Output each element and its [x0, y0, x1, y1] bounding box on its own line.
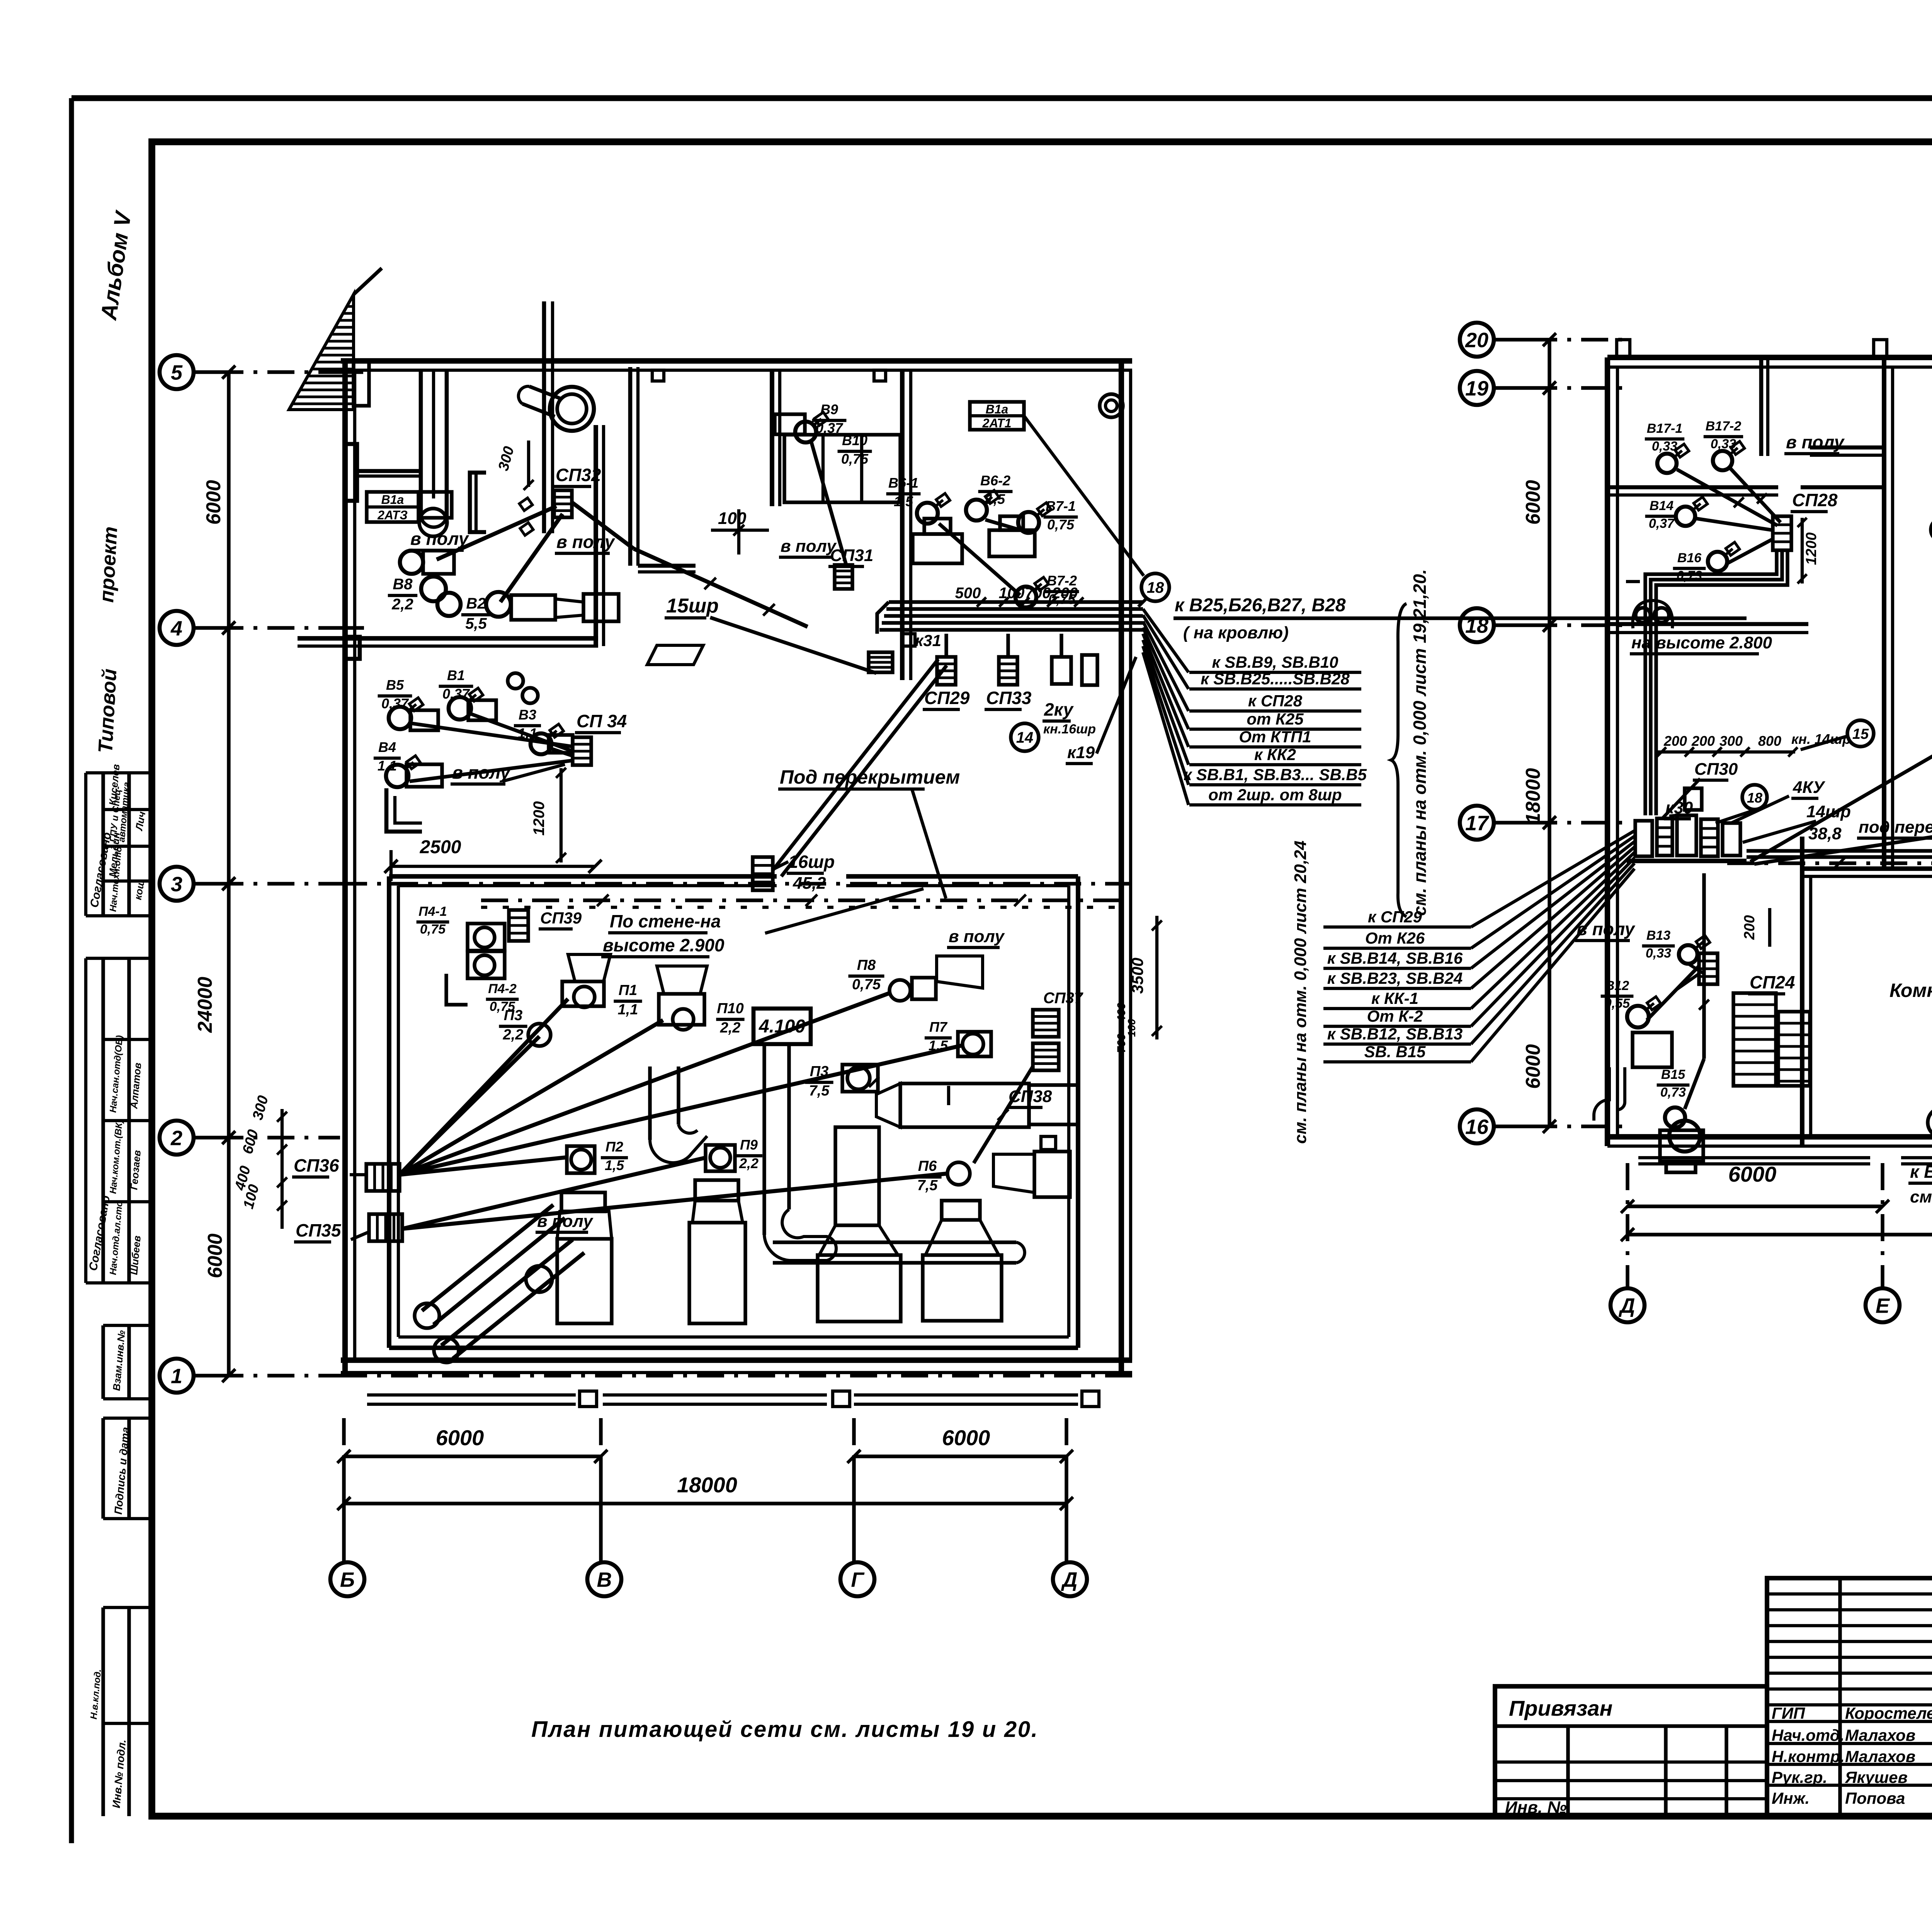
- svg-text:4: 4: [170, 617, 182, 640]
- cables to SP34: [412, 723, 573, 747]
- title block left box Privyazan: [1495, 1686, 1767, 1816]
- svg-text:ГИП: ГИП: [1772, 1704, 1805, 1722]
- svg-text:6000: 6000: [202, 480, 225, 525]
- vents V6-1 V6-2: [917, 503, 938, 524]
- svg-text:П3: П3: [504, 1007, 522, 1024]
- svg-text:От КТП1: От КТП1: [1239, 728, 1311, 746]
- svg-text:В12: В12: [1605, 978, 1629, 993]
- svg-text:1: 1: [171, 1364, 182, 1388]
- svg-text:Д: Д: [1061, 1568, 1078, 1591]
- svg-text:к SВ.В25.....SВ.В28: к SВ.В25.....SВ.В28: [1201, 670, 1350, 688]
- cables V13 V12 SP24: [1688, 964, 1704, 974]
- svg-text:СП30: СП30: [1694, 760, 1738, 779]
- title block: [1767, 1578, 1932, 1816]
- svg-text:высоте 2.900: высоте 2.900: [603, 935, 724, 955]
- hatched floor connector: [869, 652, 893, 672]
- svg-text:15шр: 15шр: [666, 595, 719, 617]
- svg-text:2,2: 2,2: [391, 596, 413, 613]
- svg-text:В1а: В1а: [986, 402, 1009, 416]
- svg-text:200: 200: [1663, 733, 1687, 749]
- right plan outer walls: [1607, 355, 1932, 360]
- vents V7-1 V7-2: [1018, 512, 1039, 533]
- dims 200 200 300 800: [1656, 750, 1795, 754]
- long horizontal silencer: [876, 1084, 900, 1127]
- svg-text:500: 500: [955, 585, 981, 602]
- svg-text:700: 700: [1115, 1034, 1128, 1053]
- svg-text:к КК2: к КК2: [1254, 745, 1296, 764]
- svg-text:6000: 6000: [436, 1425, 484, 1450]
- svg-text:П4-1: П4-1: [418, 904, 447, 919]
- svg-text:0,37: 0,37: [1649, 516, 1675, 531]
- svg-text:В17-2: В17-2: [1706, 419, 1742, 434]
- svg-text:В15: В15: [1661, 1067, 1685, 1082]
- svg-text:В1а: В1а: [381, 493, 404, 507]
- box V1a 2AT3: [367, 492, 418, 522]
- SP35: [369, 1214, 402, 1241]
- SP36: [366, 1164, 400, 1191]
- svg-text:19: 19: [1465, 377, 1488, 400]
- svg-text:0,75: 0,75: [420, 922, 446, 937]
- P3 7.5 unit: [842, 1065, 878, 1092]
- svg-text:Б: Б: [340, 1568, 355, 1591]
- SP32 connector: [554, 490, 572, 517]
- svg-text:2АТЗ: 2АТЗ: [377, 508, 408, 522]
- axis 3 line through plan: [340, 882, 1132, 885]
- SP28: [1773, 516, 1791, 550]
- P10 unit: [659, 994, 704, 1025]
- duct bottle below P3-7.5: [835, 1127, 879, 1225]
- bottle funnel below P6: [942, 1201, 980, 1220]
- tall narrow shaft: [542, 301, 546, 533]
- svg-text:20: 20: [1465, 328, 1488, 352]
- svg-text:6000: 6000: [204, 1233, 226, 1278]
- svg-text:в полу: в полу: [949, 927, 1005, 946]
- room1 bottom walls: [1810, 446, 1884, 450]
- svg-text:Малахов: Малахов: [1845, 1747, 1915, 1766]
- svg-text:к SВ.В14, SВ.В16: к SВ.В14, SВ.В16: [1327, 949, 1463, 967]
- svg-text:П7: П7: [929, 1019, 948, 1035]
- svg-text:П10: П10: [717, 1000, 744, 1017]
- SP29 SP33 2ku boxes: [937, 657, 956, 685]
- P8 unit: [889, 980, 910, 1001]
- svg-text:П9: П9: [740, 1137, 758, 1153]
- right plan row axes: [1460, 323, 1494, 357]
- vents V17-1 V17-2: [1657, 454, 1677, 473]
- svg-text:0,55: 0,55: [1604, 996, 1630, 1011]
- svg-text:В9: В9: [820, 401, 838, 417]
- box V1a 2AT1: [970, 402, 1024, 430]
- svg-text:1,5: 1,5: [894, 493, 913, 509]
- cable fan from SP35: [402, 1158, 706, 1229]
- svg-text:СП36: СП36: [294, 1155, 339, 1175]
- svg-text:В7-1: В7-1: [1046, 498, 1076, 514]
- vent V8: [400, 551, 423, 574]
- svg-text:к SВ.В23, SВ.В24: к SВ.В23, SВ.В24: [1327, 969, 1463, 987]
- svg-text:200: 200: [1742, 915, 1758, 940]
- fan from plan edge to stack1: [1143, 609, 1189, 672]
- svg-text:кн.16шр: кн.16шр: [1043, 722, 1096, 737]
- svg-text:0,73: 0,73: [1660, 1085, 1686, 1100]
- sheet outer border: [69, 98, 74, 1843]
- svg-text:В14: В14: [1650, 498, 1673, 513]
- SP34: [573, 737, 591, 765]
- svg-text:18000: 18000: [1522, 768, 1544, 824]
- svg-text:2ку: 2ку: [1044, 699, 1074, 720]
- channel bracket: [470, 473, 486, 532]
- svg-text:7,5: 7,5: [917, 1177, 938, 1194]
- svg-text:200: 200: [1691, 733, 1715, 749]
- svg-text:Привязан: Привязан: [1509, 1696, 1612, 1720]
- svg-text:Инв. №: Инв. №: [1505, 1798, 1567, 1817]
- svg-text:на высоте 2.800: на высоте 2.800: [1631, 633, 1772, 652]
- axis 5 line through stair: [340, 370, 363, 374]
- bottom dim lines 6000/18000: [344, 1454, 601, 1458]
- svg-text:0,37: 0,37: [442, 686, 470, 702]
- 4.100 box left plan: [753, 1009, 811, 1044]
- svg-text:6000: 6000: [1522, 480, 1544, 525]
- svg-text:Рук.гр.: Рук.гр.: [1772, 1768, 1827, 1786]
- duct down from 4.100: [762, 1044, 766, 1235]
- svg-text:в полу: в полу: [781, 537, 837, 556]
- svg-text:3500: 3500: [1128, 958, 1146, 993]
- trunk right from cluster to SP25/27: [1747, 855, 1932, 859]
- stamp table block 2 (Soglasovano): [101, 958, 105, 1283]
- top wall pilaster tabs: [652, 370, 664, 381]
- svg-text:Малахов: Малахов: [1845, 1726, 1915, 1744]
- window block: [784, 435, 900, 502]
- svg-text:18000: 18000: [677, 1473, 737, 1497]
- svg-text:2: 2: [170, 1126, 182, 1150]
- svg-text:0,37: 0,37: [381, 696, 409, 711]
- P3 vent: [528, 1024, 551, 1046]
- room wall vertical: [594, 425, 598, 646]
- svg-text:Н.контр.: Н.контр.: [1772, 1747, 1845, 1766]
- axis 1 line through plan: [340, 1374, 1132, 1377]
- svg-text:к31: к31: [915, 631, 941, 650]
- wall at axis G: [900, 370, 905, 680]
- svg-text:100: 100: [999, 585, 1025, 602]
- svg-text:0,37: 0,37: [816, 420, 844, 436]
- svg-text:П2: П2: [605, 1139, 623, 1155]
- 16shr connector and label: [773, 659, 938, 870]
- svg-text:в полу: в полу: [1786, 432, 1845, 452]
- svg-text:Попова: Попова: [1845, 1789, 1905, 1807]
- dash-dot run right plan: [1727, 861, 1932, 865]
- bottle funnel below P2: [561, 1192, 605, 1211]
- stamp rows: inv no podl: [101, 1607, 105, 1816]
- P4-2 unit: [468, 951, 505, 978]
- stamp table block 1 (Soglasovano): [101, 773, 105, 916]
- svg-text:6000: 6000: [942, 1425, 990, 1450]
- circle 18 left plan: [1141, 573, 1169, 601]
- room1 vertical wall: [1759, 360, 1764, 456]
- svg-text:Под перекрытием: Под перекрытием: [780, 766, 960, 788]
- svg-text:7,5: 7,5: [809, 1083, 830, 1099]
- svg-text:От К26: От К26: [1365, 929, 1425, 947]
- svg-text:5,5: 5,5: [465, 615, 487, 632]
- svg-text:2,2: 2,2: [503, 1027, 524, 1043]
- svg-text:к СП29: к СП29: [1368, 908, 1422, 926]
- svg-text:2500: 2500: [420, 837, 461, 857]
- circle 14 and kn16shr k19: [1011, 723, 1039, 751]
- svg-text:Комната мастеров: Комната мастеров: [1889, 980, 1932, 1001]
- room wall horizontal: [298, 636, 598, 641]
- svg-text:Г: Г: [851, 1568, 865, 1591]
- svg-text:в полу: в полу: [556, 532, 616, 552]
- svg-text:от К25: от К25: [1247, 710, 1304, 728]
- svg-text:к В25,Б26,В27, В28: к В25,Б26,В27, В28: [1175, 595, 1346, 616]
- svg-text:2,2: 2,2: [720, 1020, 741, 1036]
- upper middle wall: [770, 370, 774, 506]
- svg-text:см. планы на отм. 0,000 лист 1: см. планы на отм. 0,000 лист 19,21,20.: [1410, 569, 1430, 916]
- svg-text:Инж.: Инж.: [1772, 1789, 1810, 1807]
- svg-text:П8: П8: [857, 957, 876, 973]
- svg-text:к SВ.В1, SВ.В3... SВ.В5: к SВ.В1, SВ.В3... SВ.В5: [1184, 765, 1367, 784]
- svg-text:СП28: СП28: [1792, 490, 1838, 510]
- svg-text:800: 800: [1758, 733, 1781, 749]
- svg-text:В4: В4: [378, 739, 396, 755]
- P1 unit: [562, 981, 604, 1006]
- svg-text:45,2: 45,2: [793, 874, 826, 893]
- svg-text:к В23,В24 ( на кровлю): к В23,В24 ( на кровлю): [1910, 1162, 1932, 1182]
- svg-text:в полу: в полу: [1577, 919, 1636, 939]
- stair hatch top-left outside: [289, 294, 354, 410]
- svg-text:План питающей сети см. лис: План питающей сети см. листы 19 и 20.: [531, 1717, 1037, 1742]
- P2 unit: [567, 1146, 595, 1173]
- svg-text:СП29: СП29: [924, 688, 970, 708]
- svg-text:1200: 1200: [531, 801, 548, 836]
- svg-text:в полу: в полу: [452, 762, 511, 782]
- left plan outer walls: [341, 358, 1132, 364]
- svg-text:СП31: СП31: [830, 546, 873, 565]
- svg-text:14: 14: [1016, 729, 1034, 746]
- svg-text:Коростелев: Коростелев: [1845, 1704, 1932, 1722]
- svg-text:По стене-на: По стене-на: [610, 911, 721, 931]
- svg-text:см. планы на отм. 0,000 лист 2: см. планы на отм. 0,000 лист 20,24: [1291, 840, 1310, 1144]
- stairwell: [1733, 993, 1776, 1086]
- big vertical duct: [419, 370, 423, 516]
- svg-text:17: 17: [1465, 811, 1490, 835]
- svg-text:SВ. В15: SВ. В15: [1364, 1043, 1426, 1061]
- room2 bottom wall: [1607, 622, 1808, 626]
- svg-text:16шр: 16шр: [788, 852, 835, 872]
- svg-text:от 2шр. от 8шр: от 2шр. от 8шр: [1208, 786, 1342, 804]
- right plan column axes bottom: [1611, 1288, 1645, 1322]
- svg-text:см. план на отм. 0,000 лист 24: см. план на отм. 0,000 лист 24: [1910, 1187, 1932, 1206]
- svg-text:В1: В1: [447, 667, 465, 683]
- svg-text:От К-2: От К-2: [1367, 1007, 1423, 1025]
- cables to SP28: [1677, 469, 1777, 526]
- SP37 SP38 boxes: [1033, 1010, 1059, 1037]
- small room top wall: [357, 469, 419, 473]
- svg-text:Д: Д: [1619, 1294, 1635, 1317]
- bottle funnel below P9: [695, 1180, 738, 1201]
- svg-text:0,33: 0,33: [1711, 437, 1736, 451]
- svg-text:15: 15: [1852, 726, 1869, 742]
- svg-text:В17-1: В17-1: [1647, 421, 1683, 436]
- svg-text:к СП28: к СП28: [1248, 692, 1303, 710]
- svg-text:0,33: 0,33: [1646, 946, 1671, 961]
- svg-text:Типовой: Типовой: [94, 668, 121, 754]
- svg-text:( на кровлю): ( на кровлю): [1183, 623, 1289, 642]
- svg-text:П1: П1: [619, 982, 637, 998]
- svg-text:П4-2: П4-2: [488, 981, 517, 996]
- svg-text:2АТ1: 2АТ1: [982, 416, 1011, 430]
- svg-text:0,75: 0,75: [841, 451, 869, 467]
- svg-text:к КК-1: к КК-1: [1371, 989, 1418, 1007]
- interior main vertical wall: [1882, 357, 1886, 869]
- cable fan from SP36: [400, 999, 568, 1175]
- svg-text:18: 18: [1147, 579, 1164, 596]
- rounded elbow duct: [648, 1067, 651, 1140]
- svg-text:Якушев: Якушев: [1845, 1768, 1908, 1786]
- svg-text:В6-2: В6-2: [980, 473, 1010, 488]
- svg-text:18: 18: [1747, 790, 1762, 806]
- P7 unit: [958, 1032, 991, 1056]
- bottom outer strip: [367, 1393, 576, 1397]
- trunk from SP28 down-left: [1645, 550, 1777, 815]
- svg-text:6000: 6000: [1522, 1044, 1544, 1089]
- svg-text:проект: проект: [95, 526, 122, 603]
- P4-1 unit: [468, 924, 505, 951]
- svg-text:1,5: 1,5: [986, 491, 1005, 507]
- svg-text:под перекрытием: под перекрытием: [1859, 818, 1932, 837]
- right plan bottom strip: [1638, 1156, 1870, 1159]
- svg-text:к19: к19: [1067, 743, 1095, 762]
- svg-text:В8: В8: [393, 576, 413, 593]
- svg-text:В13: В13: [1646, 928, 1670, 943]
- svg-text:СП39: СП39: [540, 909, 582, 927]
- axis 4 stub into plan: [340, 626, 364, 629]
- P6 unit: [947, 1162, 970, 1185]
- svg-text:0,33: 0,33: [1652, 439, 1677, 454]
- SP39: [509, 910, 528, 941]
- second room wall vertical: [628, 367, 633, 566]
- svg-text:0,75: 0,75: [1047, 517, 1075, 532]
- svg-text:5: 5: [171, 361, 183, 384]
- cluster leaders: [1662, 779, 1700, 819]
- equipment cluster: [1635, 821, 1652, 856]
- stack1 brace: [1391, 604, 1406, 917]
- vent V9 and label: [795, 422, 816, 442]
- SP24: [1699, 953, 1718, 984]
- svg-text:В6-1: В6-1: [888, 475, 918, 491]
- svg-text:В5: В5: [386, 677, 404, 693]
- svg-text:в полу: в полу: [537, 1212, 594, 1231]
- right bottom dim lines: [1628, 1204, 1883, 1208]
- left plan column axes bottom: [330, 1562, 364, 1596]
- right plan top pilasters: [1617, 340, 1630, 357]
- svg-text:Е: Е: [1876, 1294, 1890, 1317]
- svg-text:П6: П6: [918, 1158, 937, 1174]
- left plan vertical dim line: [227, 372, 230, 1376]
- ring outlet top right room: [1100, 394, 1123, 417]
- svg-text:В: В: [597, 1568, 612, 1591]
- svg-text:СП37: СП37: [1043, 990, 1083, 1007]
- lower hall double walls: [389, 874, 777, 879]
- svg-text:в полу: в полу: [410, 529, 469, 549]
- left plan row axes: [160, 355, 194, 389]
- svg-text:СП 34: СП 34: [577, 711, 627, 731]
- svg-text:В3: В3: [519, 707, 536, 723]
- lower-left room vents V5 V1 V3 V4: [389, 707, 411, 729]
- right plan vertical dim line: [1548, 340, 1551, 1126]
- svg-text:16: 16: [1465, 1115, 1489, 1138]
- svg-text:СП24: СП24: [1750, 972, 1795, 992]
- svg-text:1,1: 1,1: [378, 758, 397, 774]
- svg-text:0,75: 0,75: [852, 976, 881, 993]
- dash-dot run under ceiling: [481, 898, 1120, 902]
- svg-text:Нач.отд.: Нач.отд.: [1772, 1726, 1844, 1744]
- cables from SP32: [437, 506, 556, 560]
- long floor pipe: [773, 1240, 1016, 1244]
- svg-text:В2: В2: [466, 595, 486, 612]
- svg-text:3: 3: [171, 873, 182, 896]
- svg-text:4КУ: 4КУ: [1793, 778, 1826, 797]
- svg-text:6000: 6000: [1728, 1162, 1777, 1186]
- tilted cylinder pipe: [550, 387, 594, 431]
- small parallelogram: [647, 645, 703, 665]
- svg-text:300: 300: [1719, 733, 1743, 749]
- svg-text:В10: В10: [842, 432, 867, 448]
- two circled outlets komnata: [1928, 1108, 1932, 1137]
- P9 unit: [706, 1145, 735, 1171]
- stamp rows: podpis i data: [101, 1418, 105, 1519]
- svg-text:24000: 24000: [194, 977, 216, 1033]
- vent V2: [486, 592, 511, 617]
- svg-text:В16: В16: [1677, 551, 1702, 565]
- svg-text:СП32: СП32: [556, 465, 601, 485]
- svg-text:к SВ.В12, SВ.В13: к SВ.В12, SВ.В13: [1327, 1025, 1463, 1043]
- svg-text:2,2: 2,2: [739, 1155, 759, 1171]
- ring outlets: [1931, 518, 1932, 541]
- diagonal floor ducts: [422, 1205, 553, 1311]
- vents V14 V16: [1676, 507, 1695, 526]
- svg-text:к SВ.В9, SВ.В10: к SВ.В9, SВ.В10: [1212, 653, 1338, 671]
- komnata masterov walls: [1802, 866, 1932, 871]
- na vysote 2.800: [1636, 608, 1650, 623]
- svg-text:1200: 1200: [1803, 532, 1820, 565]
- stamp rows: vzam inv: [101, 1325, 105, 1399]
- svg-text:СП33: СП33: [986, 688, 1032, 708]
- svg-text:1,1: 1,1: [618, 1002, 638, 1018]
- svg-text:1,5: 1,5: [605, 1157, 624, 1173]
- svg-text:СП35: СП35: [296, 1220, 342, 1240]
- trunk bundle to right edge: [889, 600, 1143, 604]
- vertical cable to V15: [1702, 873, 1706, 1059]
